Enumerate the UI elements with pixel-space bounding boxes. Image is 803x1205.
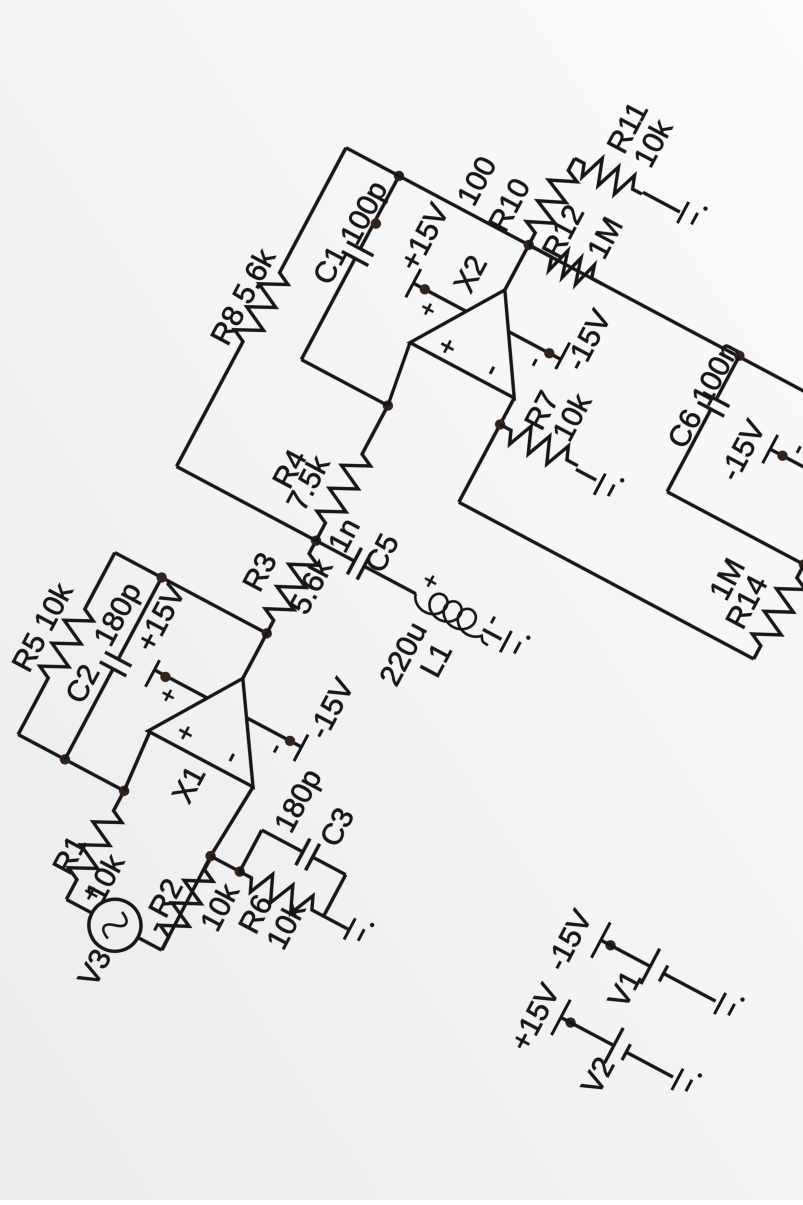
R8 label and value <box>205 243 283 351</box>
op-amp X2 <box>410 262 557 398</box>
wire minus input row <box>161 785 253 952</box>
node dot C6 R14 <box>797 557 803 571</box>
ground V2 <box>672 1065 703 1099</box>
resistor R2 <box>150 850 223 956</box>
R14 value 1M <box>703 553 752 605</box>
X1 -15V supply <box>238 706 308 764</box>
node dot C1 right <box>392 169 406 183</box>
resistor R5 <box>7 547 127 741</box>
R4 label <box>267 444 314 493</box>
resistor R11 <box>569 147 685 225</box>
L1 plus mark <box>416 569 446 594</box>
op-amp X1 <box>148 651 296 787</box>
-15V label <box>302 673 361 744</box>
C3 label <box>314 803 361 852</box>
X2 label <box>448 250 494 298</box>
wire C3 top stub <box>240 830 304 894</box>
C2 label <box>59 659 106 708</box>
wire output rail upper <box>346 148 529 245</box>
V3 minus terminal wire <box>132 914 173 950</box>
wire feedback rail left <box>459 502 754 659</box>
battery V1 <box>591 922 725 1018</box>
R10 value 100 <box>451 151 504 211</box>
R3 value 5.6k <box>283 553 339 619</box>
resistor R3 <box>255 535 327 640</box>
R11 value 10k <box>628 114 680 173</box>
capacitor C2 <box>52 569 176 767</box>
node dot C2 row right <box>155 570 169 584</box>
R3 label <box>237 547 284 596</box>
wire C6 left drop <box>667 492 803 565</box>
R12 label <box>536 200 591 264</box>
R10 label <box>482 173 537 237</box>
node dot R6 top <box>233 865 247 879</box>
C6 label <box>662 404 709 453</box>
node dot R7 <box>493 417 507 431</box>
R7 value 10k <box>546 388 598 447</box>
R2 value 10k <box>194 878 246 937</box>
C5 label <box>359 529 406 578</box>
R6 label <box>233 890 280 939</box>
R4 value 7.5k <box>281 450 337 516</box>
wire output rail lower <box>529 245 803 441</box>
R1 label <box>47 830 94 879</box>
-15V label near C6 <box>713 415 772 486</box>
resistor R6 <box>234 860 330 928</box>
ground V1 <box>714 989 745 1023</box>
R12 value 1M <box>581 212 630 264</box>
resistor R12 <box>523 233 608 295</box>
R11 label <box>601 97 655 159</box>
V3 plus terminal wire <box>66 878 108 916</box>
L1 minus mark <box>475 608 507 631</box>
wire plus input <box>120 732 154 791</box>
V3 label <box>72 944 118 992</box>
node dot minus input <box>204 849 218 863</box>
inductor L1 <box>410 583 507 650</box>
R1 value 10k <box>79 848 131 907</box>
wire X1 output row <box>243 633 267 678</box>
wire R8 left drop <box>177 466 317 540</box>
V1 label <box>602 965 648 1013</box>
X2 -15V supply <box>499 315 569 377</box>
wire left rail <box>18 735 124 791</box>
+15V label <box>130 579 192 657</box>
L1 value 220u <box>373 617 433 691</box>
V2 label <box>575 1052 621 1100</box>
R2 label <box>143 873 190 922</box>
battery V2 <box>551 1000 682 1095</box>
ground R6 <box>344 915 375 949</box>
ground L1 <box>500 627 531 661</box>
ground R7 <box>594 470 625 504</box>
resistor R14 <box>742 482 803 665</box>
R14 label <box>720 570 775 634</box>
resistor R8 <box>165 142 357 473</box>
C2 value 180p <box>88 577 148 651</box>
node dot C6 right <box>732 349 746 363</box>
ground R11 <box>677 198 708 232</box>
node dot X1 output <box>260 626 274 640</box>
X1 +15V supply <box>144 660 214 719</box>
capacitor C5 <box>309 527 423 607</box>
wire X2 minus input row <box>459 398 514 502</box>
resistor R4 <box>305 399 400 546</box>
C1 label <box>307 241 354 290</box>
wire X2 output <box>505 245 529 290</box>
source V3 <box>80 890 150 960</box>
capacitor C6 <box>654 349 753 499</box>
L1 label <box>414 638 459 683</box>
wire D1 to D2 <box>211 856 240 871</box>
R5 label and value <box>6 577 80 677</box>
node dot plus input <box>117 784 131 798</box>
-15V label V1 <box>540 905 599 976</box>
node dot X2 output <box>522 238 536 252</box>
capacitor C1 <box>288 169 412 367</box>
R7 label <box>519 386 566 435</box>
node dot R3 R4 C5 <box>309 534 323 548</box>
resistor R10 <box>517 152 586 251</box>
resistor R7 <box>494 413 604 488</box>
wire n1 column <box>301 360 388 406</box>
node dot C2 row left <box>58 752 72 766</box>
X1 label <box>166 761 212 809</box>
R6 value 10k <box>260 896 312 955</box>
-15V supply near C6 <box>763 434 803 503</box>
+15V label V2 <box>504 978 566 1056</box>
wire X2 plus input <box>379 343 419 406</box>
+15V label X2 <box>394 198 456 276</box>
C3 value 180p <box>268 764 328 838</box>
pin dot C1 terminal <box>369 217 383 231</box>
wire mid rail <box>115 553 267 634</box>
node dot R4 right <box>381 399 395 413</box>
capacitor C3 <box>296 839 353 888</box>
C1 value 100p <box>334 176 394 250</box>
X2 +15V supply <box>402 269 473 332</box>
resistor R1 <box>55 785 136 906</box>
C6 value 100n <box>685 337 745 411</box>
C5 value 1n <box>322 513 367 558</box>
-15V label X2 <box>559 304 618 375</box>
wire C3 bottom <box>324 875 372 930</box>
